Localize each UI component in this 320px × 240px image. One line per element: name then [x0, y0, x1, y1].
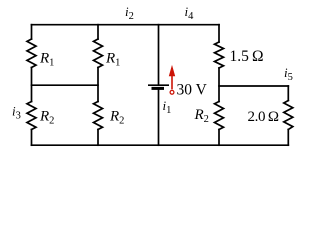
wire left branch lower lead [31, 130, 33, 146]
resistor R1 (second) [94, 39, 103, 68]
wire right branch lower lead [218, 130, 220, 146]
node circle at arrow base [170, 90, 174, 94]
resistor R2 (right loop) [215, 102, 224, 130]
resistor R1 (left) [27, 39, 36, 68]
resistor 2.0 ohm [284, 101, 293, 130]
resistor R2 (second) [94, 102, 103, 130]
wire far-right upper lead [287, 86, 289, 101]
current arrow i1 (red, up) [169, 66, 175, 94]
wire top bus [32, 24, 220, 26]
wire far-right lower lead [287, 130, 289, 146]
svg-text:i4: i4 [185, 4, 195, 22]
svg-text:30 V: 30 V [177, 82, 208, 99]
battery V1 long plate [148, 84, 169, 86]
wire right branch to junction [218, 68, 220, 102]
svg-text:2.0 Ω: 2.0 Ω [248, 109, 279, 125]
svg-text:R2: R2 [109, 108, 124, 126]
svg-text:i3: i3 [12, 104, 21, 122]
wire middle horizontal (left pair) [32, 84, 99, 86]
resistor R2 (left) [27, 102, 36, 130]
wire left branch upper lead [31, 25, 33, 39]
svg-text:R1: R1 [39, 51, 54, 69]
wire right branch upper lead [218, 25, 220, 42]
svg-text:i5: i5 [284, 65, 293, 83]
svg-text:R2: R2 [39, 108, 54, 126]
wire second branch middle [97, 68, 99, 102]
battery V1 short thick plate [152, 87, 165, 90]
wire battery branch lower [158, 89, 160, 145]
resistor 1.5 ohm [215, 42, 224, 68]
svg-text:1.5 Ω: 1.5 Ω [230, 48, 264, 65]
wire second branch lower lead [97, 130, 99, 146]
wire second branch upper lead [97, 25, 99, 39]
svg-text:R2: R2 [194, 107, 209, 125]
svg-text:i1: i1 [163, 98, 172, 116]
wire subloop top [219, 85, 288, 87]
wire left branch middle [31, 68, 33, 102]
wire bottom bus [32, 144, 289, 146]
svg-text:R1: R1 [105, 51, 120, 69]
svg-text:i2: i2 [125, 4, 134, 22]
wire battery branch upper [158, 25, 160, 85]
